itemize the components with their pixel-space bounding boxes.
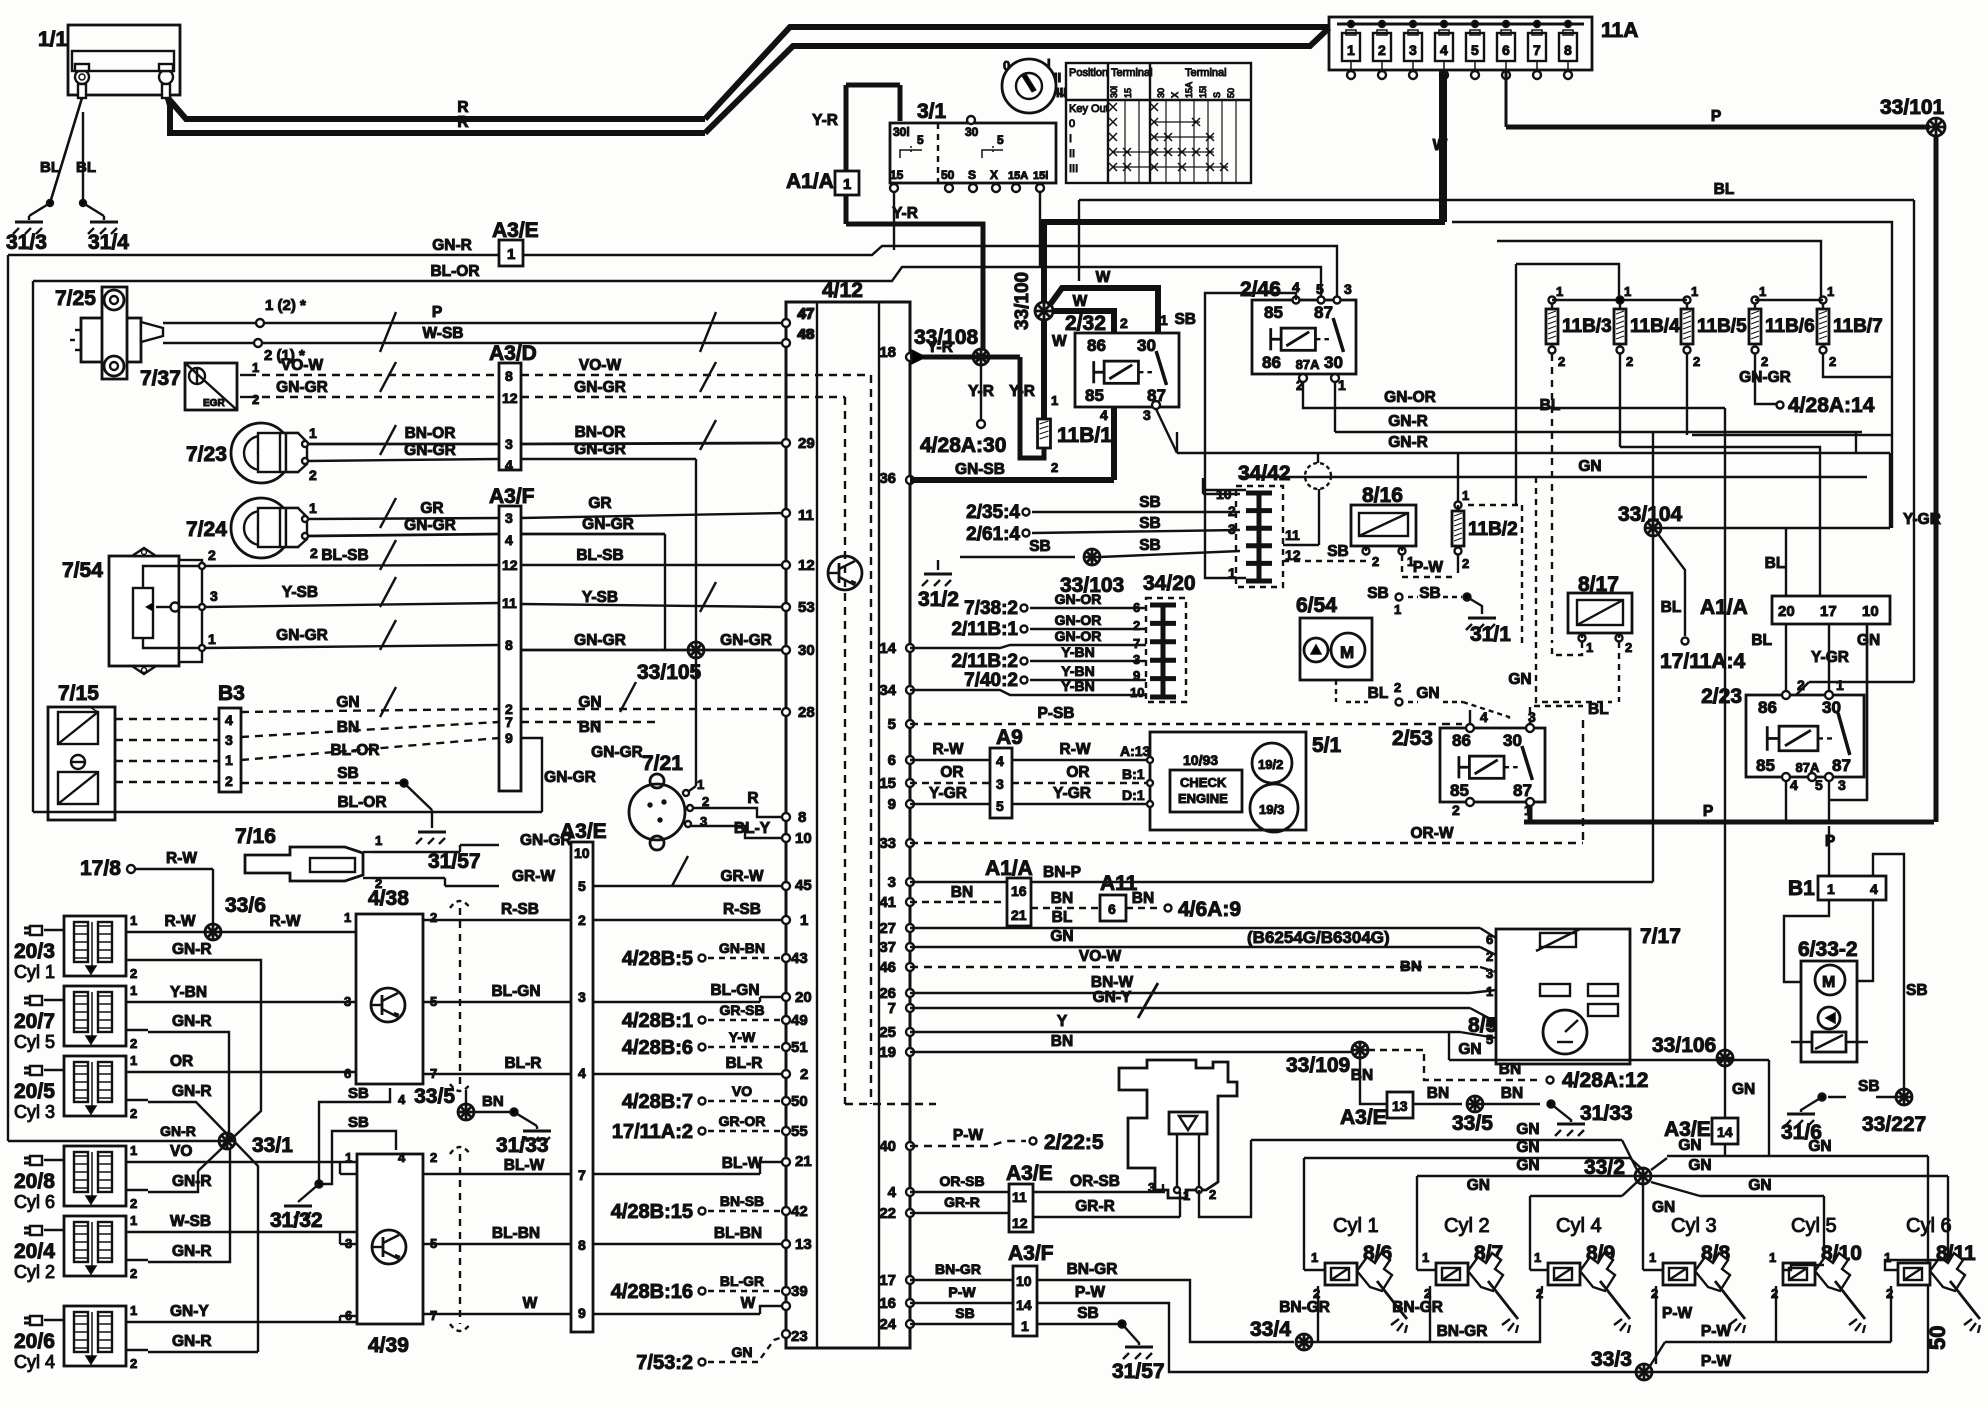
svg-text:BN: BN (1499, 1061, 1521, 1078)
svg-text:1: 1 (1836, 677, 1844, 693)
svg-text:1: 1 (1462, 488, 1469, 503)
svg-text:37: 37 (879, 939, 896, 956)
svg-text:2: 2 (208, 547, 216, 563)
svg-text:Y-BN: Y-BN (1061, 678, 1094, 694)
svg-text:BL-OR: BL-OR (430, 263, 479, 280)
svg-text:GN: GN (1050, 928, 1073, 945)
svg-text:23: 23 (791, 1328, 808, 1345)
svg-text:3: 3 (996, 776, 1004, 792)
svg-text:31/33: 31/33 (1580, 1102, 1633, 1125)
svg-text:R-W: R-W (270, 913, 301, 930)
svg-text:3: 3 (344, 994, 351, 1009)
svg-text:2: 2 (130, 1356, 137, 1371)
svg-text:SB: SB (955, 1305, 974, 1321)
svg-text:2: 2 (1761, 354, 1768, 369)
svg-text:Position: Position (1069, 67, 1108, 79)
svg-text:GN-R: GN-R (172, 1083, 212, 1100)
svg-text:W: W (1096, 269, 1111, 286)
svg-text:BL: BL (1540, 397, 1561, 414)
svg-text:50: 50 (791, 1093, 808, 1110)
svg-text:GN-BN: GN-BN (719, 940, 765, 956)
svg-text:GN: GN (1857, 632, 1880, 649)
svg-text:W: W (1052, 333, 1067, 350)
svg-text:7: 7 (1533, 42, 1541, 58)
svg-text:85: 85 (1450, 781, 1469, 800)
svg-text:12: 12 (502, 390, 518, 406)
svg-text:7/21: 7/21 (642, 752, 683, 775)
svg-text:BN: BN (579, 719, 601, 736)
svg-text:SB: SB (1419, 585, 1441, 602)
svg-text:49: 49 (791, 1012, 808, 1029)
svg-text:3: 3 (578, 989, 586, 1005)
svg-text:4: 4 (398, 1092, 406, 1107)
svg-text:Cyl 1: Cyl 1 (1333, 1215, 1379, 1237)
svg-text:17/8: 17/8 (80, 857, 121, 880)
svg-text:M: M (1822, 974, 1835, 991)
svg-text:A3/E: A3/E (560, 820, 607, 843)
svg-text:A1/A: A1/A (786, 170, 834, 193)
svg-text:33/5: 33/5 (414, 1085, 455, 1108)
svg-text:87A: 87A (1296, 357, 1320, 372)
svg-text:2/46: 2/46 (1240, 278, 1281, 301)
svg-text:1: 1 (1422, 1250, 1429, 1265)
svg-text:SB: SB (348, 1114, 369, 1131)
svg-text:BL-GR: BL-GR (720, 1273, 764, 1289)
svg-text:5: 5 (578, 878, 586, 894)
svg-text:1: 1 (1691, 284, 1698, 299)
svg-text:1: 1 (1624, 284, 1631, 299)
svg-text:SB: SB (1139, 537, 1161, 554)
svg-text:7: 7 (888, 1000, 896, 1017)
svg-text:GR-R: GR-R (944, 1194, 980, 1210)
svg-text:SB: SB (1139, 494, 1161, 511)
svg-text:GN-GR: GN-GR (276, 379, 328, 396)
svg-text:SB: SB (1327, 543, 1349, 560)
svg-text:3: 3 (1344, 281, 1352, 297)
svg-text:4: 4 (225, 712, 233, 728)
svg-text:14: 14 (1016, 1297, 1032, 1313)
svg-text:6: 6 (1486, 932, 1493, 947)
svg-text:GN-OR: GN-OR (1055, 591, 1102, 607)
svg-text:13: 13 (1392, 1098, 1408, 1114)
svg-text:31/32: 31/32 (270, 1209, 323, 1232)
svg-text:GN: GN (1467, 1177, 1490, 1194)
svg-text:11B/2: 11B/2 (1468, 519, 1518, 540)
svg-text:11B/1: 11B/1 (1057, 424, 1112, 447)
svg-text:33/101: 33/101 (1880, 96, 1945, 119)
svg-text:39: 39 (791, 1283, 808, 1300)
svg-text:BN: BN (1427, 1085, 1449, 1102)
svg-text:R-W: R-W (933, 741, 964, 758)
svg-text:31/6: 31/6 (1781, 1121, 1822, 1144)
svg-text:Terminal: Terminal (1111, 67, 1153, 79)
svg-text:2: 2 (1051, 460, 1058, 475)
svg-text:P-W: P-W (1413, 559, 1444, 576)
svg-text:6: 6 (344, 1066, 351, 1081)
svg-text:BL-OR: BL-OR (337, 794, 386, 811)
svg-text:6/33-2: 6/33-2 (1798, 938, 1858, 961)
svg-text:BL-BN: BL-BN (714, 1225, 762, 1242)
svg-text:BL: BL (76, 159, 96, 176)
svg-text:2/32: 2/32 (1065, 312, 1106, 335)
svg-text:GN-R: GN-R (172, 1173, 212, 1190)
svg-text:BN: BN (1051, 890, 1073, 907)
svg-text:BL-Y: BL-Y (734, 820, 771, 837)
svg-text:BL: BL (1588, 701, 1609, 718)
svg-text:BN-GR: BN-GR (1067, 1261, 1118, 1278)
svg-text:4: 4 (505, 532, 513, 548)
svg-text:1: 1 (1556, 284, 1563, 299)
svg-text:4: 4 (398, 1150, 406, 1165)
svg-text:29: 29 (798, 435, 815, 452)
svg-text:8: 8 (578, 1237, 586, 1253)
svg-text:16: 16 (879, 1295, 896, 1312)
svg-text:43: 43 (791, 950, 808, 967)
svg-text:24: 24 (879, 1316, 896, 1333)
svg-text:GN-GR: GN-GR (1739, 369, 1791, 386)
svg-text:33/106: 33/106 (1652, 1034, 1716, 1057)
svg-text:2: 2 (1372, 554, 1379, 569)
svg-text:2: 2 (1394, 680, 1401, 695)
svg-text:ENGINE: ENGINE (1178, 791, 1228, 806)
svg-text:20/5: 20/5 (14, 1080, 55, 1103)
svg-text:1: 1 (1586, 640, 1593, 655)
svg-text:P-SB: P-SB (1037, 705, 1074, 722)
svg-text:2: 2 (1133, 618, 1140, 633)
svg-text:7/54: 7/54 (62, 559, 103, 582)
svg-text:7/16: 7/16 (235, 825, 276, 848)
svg-text:1: 1 (697, 777, 704, 792)
svg-text:15A: 15A (1008, 170, 1028, 182)
svg-text:31/33: 31/33 (496, 1134, 549, 1157)
svg-text:P-W: P-W (1701, 1323, 1732, 1340)
svg-text:1: 1 (1827, 881, 1835, 897)
svg-text:2/23: 2/23 (1701, 685, 1742, 708)
svg-text:GN-R: GN-R (160, 1123, 196, 1139)
svg-text:4: 4 (1870, 881, 1878, 897)
svg-text:R-W: R-W (165, 913, 196, 930)
svg-text:7/25: 7/25 (55, 287, 96, 310)
svg-text:SB: SB (1367, 585, 1389, 602)
svg-text:BL: BL (1751, 632, 1772, 649)
svg-text:GN-Y: GN-Y (1093, 989, 1132, 1006)
svg-text:GN-R: GN-R (1388, 413, 1428, 430)
svg-text:X: X (1170, 92, 1180, 98)
svg-text:Cyl 2: Cyl 2 (14, 1262, 55, 1282)
svg-text:14: 14 (1717, 1124, 1733, 1140)
svg-text:5: 5 (917, 133, 924, 147)
svg-text:1/1: 1/1 (38, 28, 68, 51)
svg-text:7/15: 7/15 (58, 682, 99, 705)
svg-text:30: 30 (798, 642, 815, 659)
svg-text:4: 4 (996, 753, 1004, 769)
svg-text:4: 4 (578, 1065, 586, 1081)
svg-text:BN: BN (337, 719, 359, 736)
svg-text:2: 2 (130, 1196, 137, 1211)
svg-text:GN-R: GN-R (432, 237, 472, 254)
svg-text:2: 2 (1693, 354, 1700, 369)
svg-text:2/53: 2/53 (1392, 727, 1433, 750)
svg-text:Y-SB: Y-SB (582, 589, 618, 606)
svg-text:1: 1 (1311, 1250, 1318, 1265)
svg-text:2: 2 (130, 1036, 137, 1051)
svg-text:Y-BN: Y-BN (1061, 644, 1094, 660)
svg-text:GR: GR (588, 495, 611, 512)
svg-text:15l: 15l (1198, 86, 1208, 98)
svg-text:4/39: 4/39 (368, 1334, 409, 1357)
svg-text:21: 21 (795, 1153, 812, 1170)
svg-text:II: II (1069, 148, 1075, 160)
svg-text:(B6254G/B6304G): (B6254G/B6304G) (1247, 928, 1390, 947)
svg-text:12: 12 (502, 557, 518, 573)
svg-text:4: 4 (1480, 709, 1488, 725)
svg-text:1: 1 (1394, 602, 1401, 617)
svg-text:4/28A:14: 4/28A:14 (1788, 394, 1875, 417)
svg-text:7: 7 (578, 1167, 586, 1183)
svg-text:2: 2 (130, 1266, 137, 1281)
svg-text:III: III (1069, 163, 1078, 175)
svg-text:I: I (1069, 133, 1072, 145)
svg-text:GN-GR: GN-GR (404, 517, 456, 534)
svg-text:2: 2 (1378, 42, 1386, 58)
svg-text:SB: SB (1906, 982, 1928, 999)
svg-text:3: 3 (225, 732, 233, 748)
svg-text:17: 17 (879, 1272, 896, 1289)
svg-text:1: 1 (309, 425, 317, 441)
svg-text:GN-GR: GN-GR (574, 379, 626, 396)
svg-text:GN: GN (1578, 458, 1601, 475)
svg-text:12: 12 (1012, 1215, 1028, 1231)
svg-text:1: 1 (130, 1303, 137, 1318)
svg-text:87: 87 (1314, 303, 1333, 322)
svg-text:GN-R: GN-R (1388, 434, 1428, 451)
svg-text:BN-GR: BN-GR (1392, 1299, 1443, 1316)
svg-text:R-SB: R-SB (501, 901, 539, 918)
svg-text:48: 48 (797, 326, 814, 343)
svg-text:GN-OR: GN-OR (1055, 628, 1102, 644)
svg-text:GR-W: GR-W (720, 868, 763, 885)
svg-text:GN-R: GN-R (172, 941, 212, 958)
svg-text:5/1: 5/1 (1312, 734, 1342, 757)
svg-text:2: 2 (1120, 315, 1128, 331)
svg-text:BL: BL (1368, 685, 1389, 702)
svg-text:15: 15 (879, 775, 896, 792)
svg-text:8/5: 8/5 (1468, 1014, 1498, 1037)
svg-text:13: 13 (795, 1236, 812, 1253)
svg-text:10: 10 (1016, 1273, 1032, 1289)
svg-text:BN: BN (1501, 1085, 1523, 1102)
svg-text:Cyl 3: Cyl 3 (1671, 1215, 1717, 1237)
svg-text:BN: BN (1051, 1033, 1073, 1050)
svg-text:OR: OR (170, 1053, 193, 1070)
svg-text:3: 3 (888, 874, 896, 891)
svg-text:GN-SB: GN-SB (955, 461, 1005, 478)
svg-text:A3/E: A3/E (1006, 1162, 1053, 1185)
svg-text:9: 9 (888, 796, 896, 813)
svg-text:50: 50 (1925, 1326, 1950, 1350)
svg-text:4/28B:16: 4/28B:16 (611, 1281, 693, 1303)
svg-text:OR-SB: OR-SB (939, 1173, 984, 1189)
svg-text:BN: BN (1400, 958, 1422, 975)
svg-text:SB: SB (1139, 515, 1161, 532)
svg-text:6: 6 (1502, 42, 1510, 58)
svg-text:7: 7 (430, 1308, 437, 1323)
svg-text:10/93: 10/93 (1183, 752, 1218, 768)
svg-text:3: 3 (1143, 407, 1151, 423)
svg-text:GN: GN (1516, 1157, 1539, 1174)
svg-text:5: 5 (997, 133, 1004, 147)
svg-text:4/38: 4/38 (368, 887, 409, 910)
svg-text:OR: OR (940, 764, 963, 781)
svg-text:30l: 30l (893, 125, 910, 139)
svg-text:6: 6 (888, 752, 896, 769)
svg-text:85: 85 (1756, 756, 1775, 775)
svg-text:Cyl 5: Cyl 5 (1791, 1215, 1837, 1237)
svg-text:31/57: 31/57 (1112, 1360, 1165, 1383)
svg-text:4: 4 (1790, 777, 1798, 793)
svg-text:5: 5 (1471, 42, 1479, 58)
svg-text:36: 36 (879, 470, 896, 487)
svg-text:GN-R: GN-R (172, 1243, 212, 1260)
svg-text:BL-BN: BL-BN (492, 1225, 540, 1242)
svg-text:2: 2 (310, 545, 318, 561)
svg-text:GN: GN (1516, 1121, 1539, 1138)
svg-text:1: 1 (130, 1143, 137, 1158)
svg-text:SB: SB (1174, 311, 1196, 328)
svg-text:4/28A:12: 4/28A:12 (1562, 1069, 1648, 1092)
svg-text:GN-GR: GN-GR (574, 441, 626, 458)
svg-text:15A: 15A (1184, 82, 1194, 98)
svg-text:VO-W: VO-W (281, 357, 324, 374)
svg-text:4/28B:15: 4/28B:15 (611, 1201, 693, 1223)
svg-text:GN-GR: GN-GR (582, 516, 634, 533)
svg-text:Cyl 5: Cyl 5 (14, 1032, 55, 1052)
svg-text:2: 2 (1462, 556, 1469, 571)
svg-text:A3/D: A3/D (489, 342, 537, 365)
svg-text:12: 12 (798, 557, 815, 574)
svg-text:BL: BL (1661, 599, 1682, 616)
svg-text:2: 2 (225, 773, 233, 789)
svg-text:45: 45 (795, 877, 812, 894)
svg-text:Cyl 6: Cyl 6 (1906, 1215, 1952, 1237)
svg-text:20/7: 20/7 (14, 1010, 55, 1033)
svg-text:BL-SB: BL-SB (576, 547, 623, 564)
svg-text:1: 1 (800, 912, 808, 929)
svg-text:47: 47 (797, 306, 814, 323)
svg-text:A1/A: A1/A (1700, 596, 1748, 619)
svg-text:34: 34 (879, 682, 896, 699)
svg-text:33/227: 33/227 (1862, 1113, 1926, 1136)
svg-text:GN-GR: GN-GR (404, 442, 456, 459)
svg-text:GR-R: GR-R (1075, 1198, 1115, 1215)
svg-text:Y-GR: Y-GR (1053, 785, 1091, 802)
svg-text:33: 33 (879, 835, 896, 852)
svg-text:50: 50 (941, 168, 955, 182)
svg-text:11: 11 (502, 595, 517, 611)
svg-text:OR: OR (1066, 764, 1089, 781)
svg-text:Cyl 6: Cyl 6 (14, 1192, 55, 1212)
svg-text:II: II (1054, 70, 1061, 85)
svg-text:BN-P: BN-P (1043, 864, 1081, 881)
svg-text:GN-OR: GN-OR (1384, 389, 1436, 406)
svg-text:8/16: 8/16 (1362, 484, 1403, 507)
svg-text:2: 2 (1797, 677, 1805, 693)
svg-text:BL-R: BL-R (725, 1055, 762, 1072)
svg-text:BL-W: BL-W (722, 1155, 763, 1172)
svg-text:1: 1 (252, 360, 259, 375)
svg-text:GN-GR: GN-GR (720, 632, 772, 649)
svg-text:3: 3 (1838, 777, 1846, 793)
svg-text:9: 9 (505, 730, 513, 746)
svg-text:W-SB: W-SB (170, 1213, 211, 1230)
svg-text:86: 86 (1262, 353, 1281, 372)
svg-text:22: 22 (879, 1205, 896, 1222)
svg-text:33/3: 33/3 (1591, 1348, 1632, 1371)
svg-text:BL-OR: BL-OR (330, 742, 379, 759)
svg-text:1: 1 (507, 246, 515, 263)
svg-text:7: 7 (1133, 636, 1140, 651)
svg-text:GN-R: GN-R (172, 1013, 212, 1030)
svg-text:4/28A:30: 4/28A:30 (920, 434, 1006, 457)
svg-text:BN-OR: BN-OR (575, 424, 626, 441)
svg-text:33/100: 33/100 (1012, 272, 1033, 330)
svg-text:15l: 15l (1033, 170, 1048, 182)
svg-text:M: M (1340, 643, 1354, 662)
svg-text:A3/F: A3/F (489, 485, 535, 508)
svg-text:BL: BL (40, 159, 60, 176)
svg-text:SB: SB (348, 1085, 369, 1102)
svg-text:5: 5 (888, 716, 896, 733)
svg-text:27: 27 (879, 920, 896, 937)
svg-text:86: 86 (1087, 336, 1106, 355)
svg-text:OR-W: OR-W (1410, 825, 1453, 842)
svg-text:2/11B:2: 2/11B:2 (951, 651, 1018, 672)
svg-text:GR: GR (420, 500, 443, 517)
svg-text:W-SB: W-SB (422, 325, 463, 342)
svg-text:GN-GR: GN-GR (276, 627, 328, 644)
svg-text:A3/F: A3/F (1008, 1242, 1054, 1265)
svg-text:BL: BL (1765, 555, 1786, 572)
svg-text:10: 10 (1130, 685, 1144, 700)
svg-text:18: 18 (879, 344, 896, 361)
svg-text:7: 7 (505, 714, 513, 730)
svg-text:7/23: 7/23 (186, 443, 227, 466)
svg-text:EGR: EGR (203, 398, 225, 409)
svg-text:BL-W: BL-W (504, 1157, 545, 1174)
svg-text:GN: GN (578, 694, 601, 711)
svg-text:11: 11 (1012, 1189, 1027, 1205)
svg-text:GR-SB: GR-SB (719, 1002, 764, 1018)
svg-text:2: 2 (1486, 949, 1493, 964)
svg-text:GN: GN (1732, 1081, 1755, 1098)
svg-text:2/61:4: 2/61:4 (966, 524, 1020, 545)
svg-text:17/11A:4: 17/11A:4 (1660, 650, 1746, 673)
svg-text:SB: SB (1077, 1305, 1099, 1322)
svg-text:GN: GN (1678, 1137, 1701, 1154)
svg-text:GN: GN (1508, 671, 1531, 688)
svg-text:7/17: 7/17 (1640, 925, 1681, 948)
svg-text:Y-GR: Y-GR (1903, 511, 1941, 528)
svg-text:GN-OR: GN-OR (1055, 612, 1102, 628)
svg-text:BL-GN: BL-GN (710, 982, 759, 999)
svg-text:1: 1 (1183, 1188, 1190, 1203)
svg-text:10: 10 (795, 830, 812, 847)
svg-text:VO-W: VO-W (579, 357, 622, 374)
svg-text:GN-GR: GN-GR (591, 744, 643, 761)
svg-text:11: 11 (798, 507, 814, 524)
svg-text:1: 1 (1534, 1250, 1541, 1265)
svg-text:85: 85 (1085, 386, 1104, 405)
